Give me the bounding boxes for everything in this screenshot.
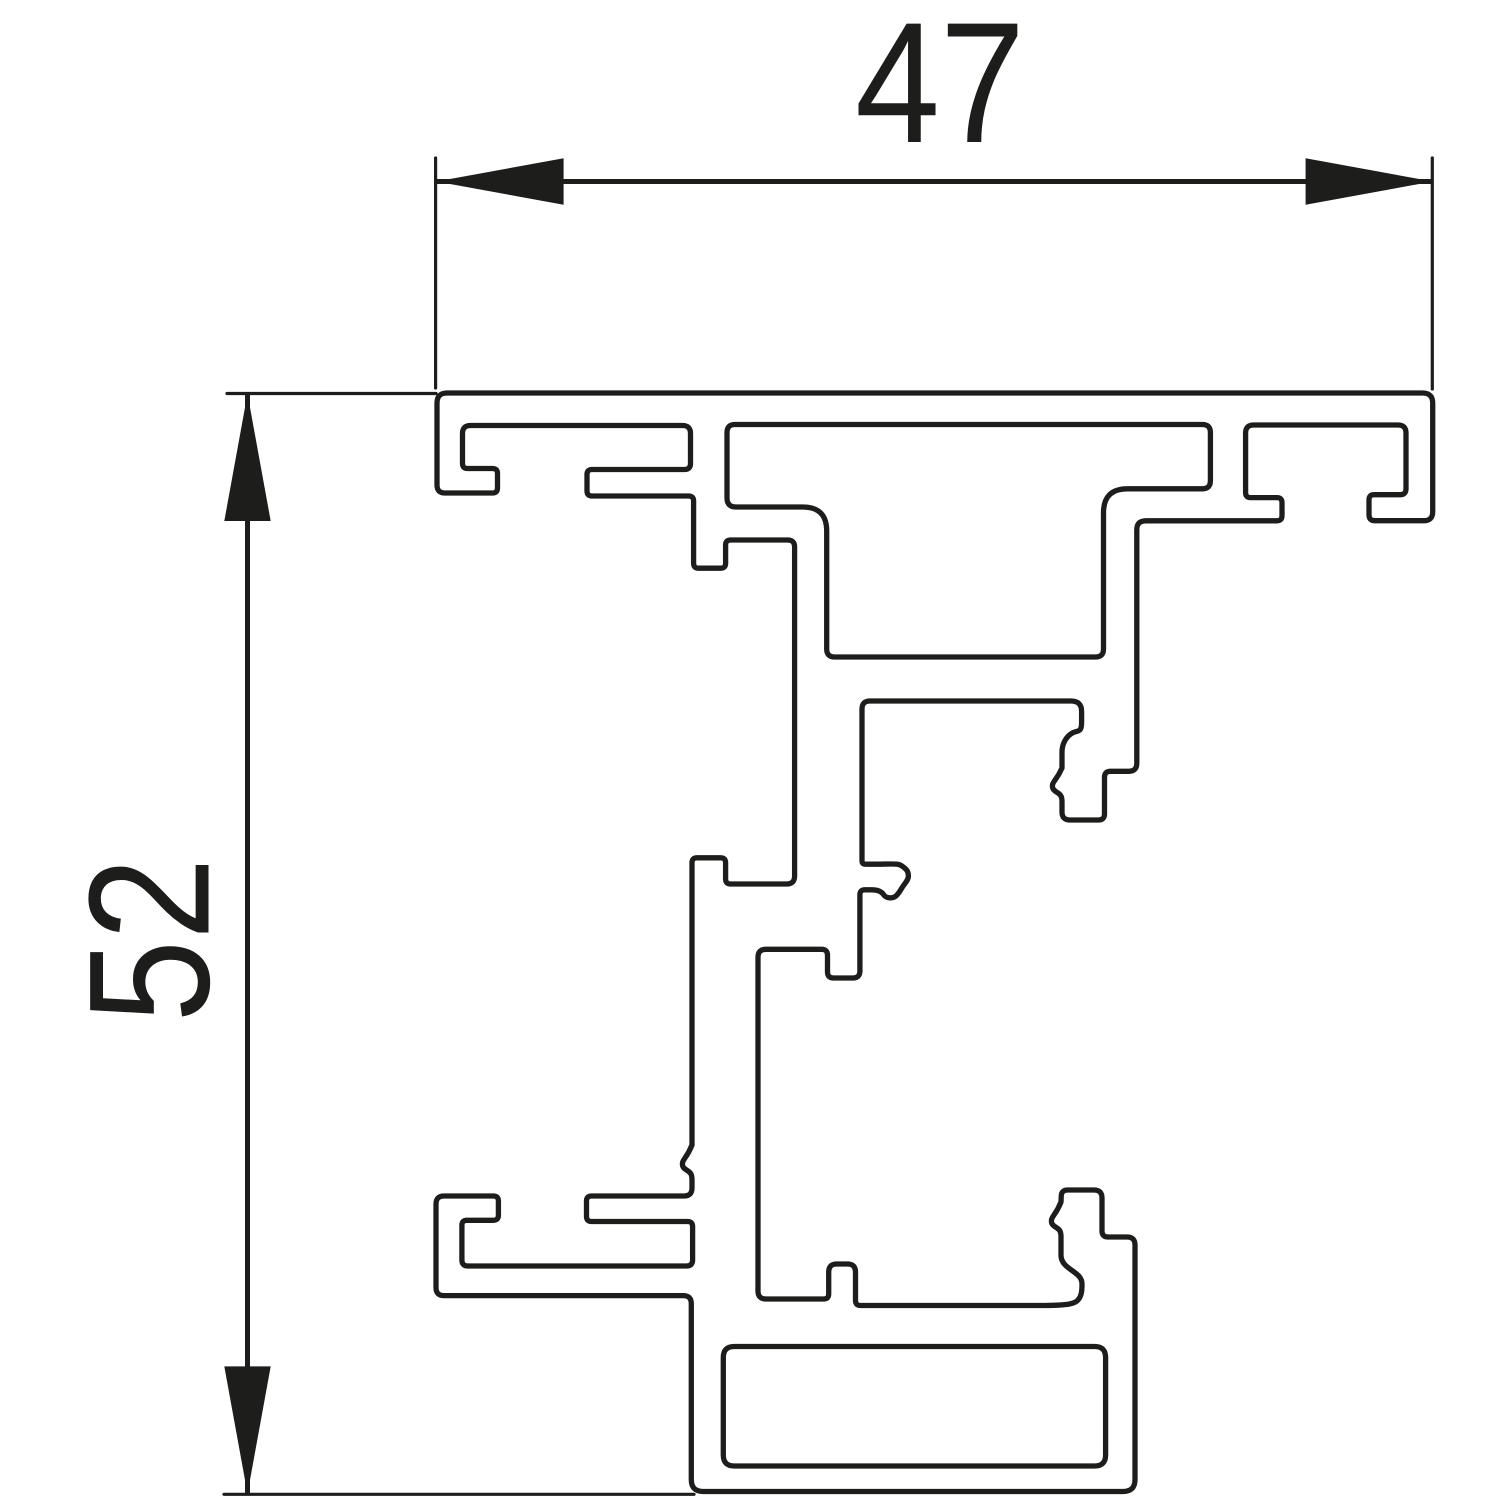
svg-text:52: 52 bbox=[54, 858, 246, 1023]
svg-text:47: 47 bbox=[855, 0, 1025, 179]
